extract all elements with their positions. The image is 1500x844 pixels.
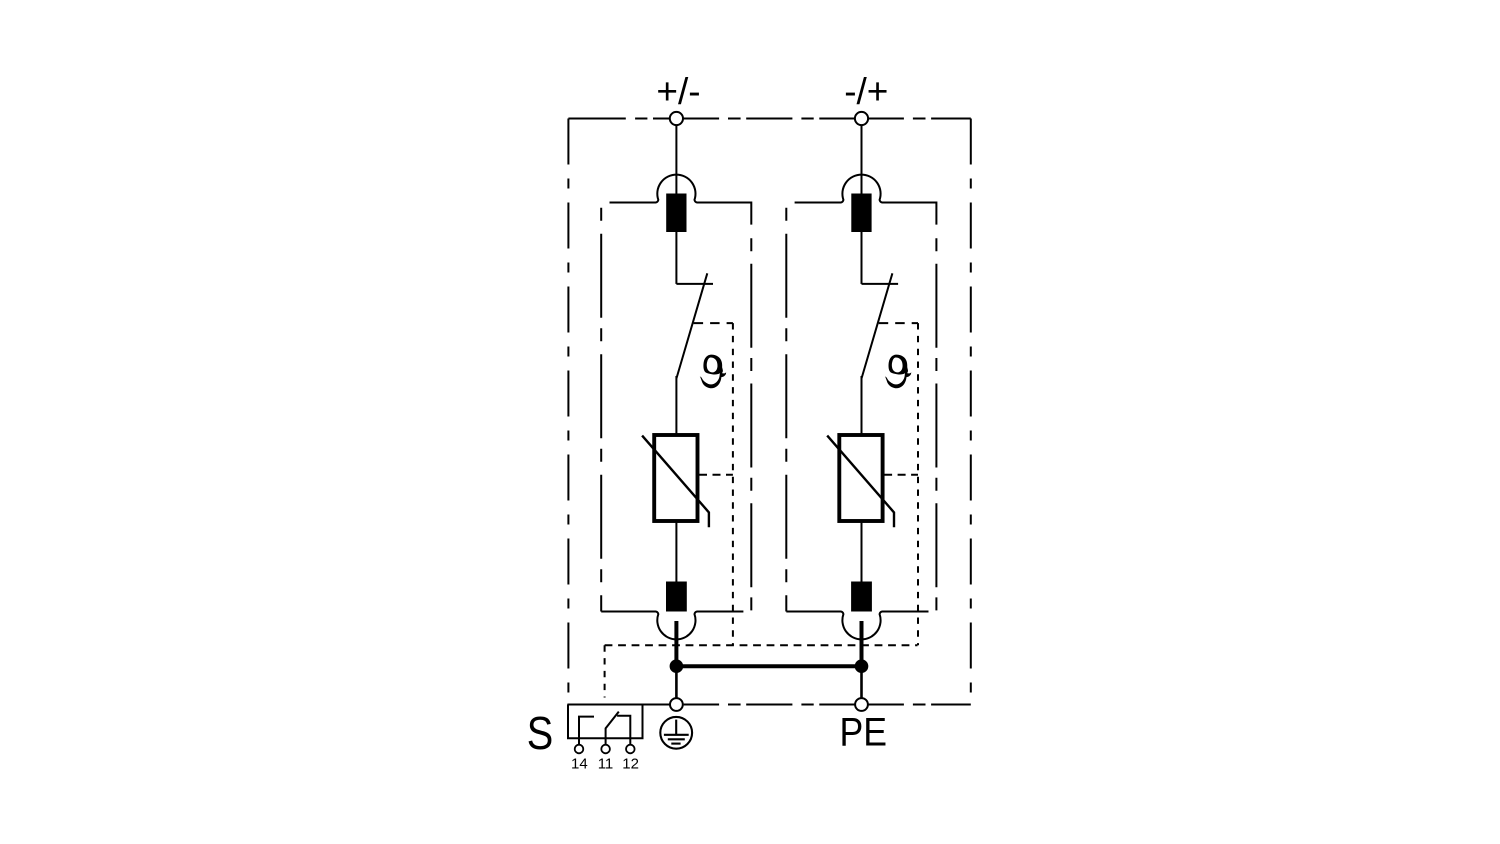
wire: plug contact to thermal disconnector (left leg) — [675, 232, 677, 284]
remote signalling contact S: box — [568, 705, 643, 739]
varistor (left leg): body — [654, 435, 697, 521]
dotted link varistor to thermal box (right leg) — [884, 474, 918, 476]
wire: plug contact to PE junction, thick (left leg) — [674, 621, 678, 666]
thermal disconnector switch (right leg): blade — [862, 273, 893, 378]
terminal circle bottom (right leg) — [855, 698, 868, 711]
wire: top left arm (right leg) — [795, 202, 842, 204]
wire: bottom left arm (right leg) — [786, 611, 841, 613]
remote signalling contact S: fixed contact 12 — [617, 716, 630, 739]
enclosure border bottom solid left portion / S box top — [567, 704, 670, 706]
junction node (right leg) — [855, 659, 869, 673]
dashed module boundary left side (right leg) — [785, 208, 787, 612]
junction node (left leg) — [670, 659, 684, 673]
dashed module boundary right side (left leg) — [750, 238, 752, 610]
dotted thermal linkage box (left leg): top — [694, 322, 733, 324]
plug-in contact top (right leg): black block — [851, 194, 871, 233]
enclosure border right (dash-dot) — [970, 119, 972, 705]
wire: terminal to top plug contact (right leg) — [861, 125, 863, 194]
dotted linkage: drop to remote signalling contact — [604, 645, 606, 697]
pin stub 12 — [629, 738, 631, 745]
terminal circle +/- — [670, 112, 683, 125]
svg-text:-/+: -/+ — [844, 71, 888, 112]
label thermal symbol ϑ (right leg) — [885, 355, 912, 389]
wire: switch to varistor (right leg) — [861, 376, 863, 435]
wire: junction to bottom terminal (right leg) — [860, 666, 863, 697]
plug-in contact bottom (left leg): black block — [666, 582, 687, 622]
wire: top left arm (left leg) — [610, 202, 657, 204]
dotted linkage: bottom horizontal to remote contact — [605, 644, 918, 646]
plug-in contact top (left leg): black block — [666, 194, 686, 233]
varistor (left leg): diagonal stroke — [642, 436, 709, 528]
svg-text:PE: PE — [840, 711, 888, 755]
wire: switch to varistor (left leg) — [675, 376, 677, 435]
thermal disconnector switch (right leg): fixed contact — [862, 283, 899, 285]
pin circle 14 — [575, 745, 584, 754]
dashed module boundary left side (left leg) — [600, 208, 602, 612]
dashed module boundary right side (right leg) — [935, 238, 937, 610]
pin circle 12 — [626, 745, 635, 754]
svg-text:11: 11 — [598, 755, 614, 772]
remote signalling contact S: fixed contact 14 — [579, 717, 594, 739]
wire: junction to bottom terminal (left leg) — [675, 666, 678, 697]
wire: top right arm with corner (left leg) — [697, 203, 752, 225]
dotted thermal linkage box (left leg): right side — [732, 323, 734, 645]
terminal circle -/+ — [855, 112, 868, 125]
varistor (right leg): body — [839, 435, 882, 521]
svg-text:12: 12 — [622, 755, 639, 772]
plug-in contact bottom (left leg): arc — [656, 612, 698, 640]
svg-text:S: S — [527, 707, 554, 759]
plug-in contact bottom (right leg): black block — [851, 582, 872, 622]
remote signalling contact S: movable contact 11 — [606, 712, 619, 739]
svg-text:14: 14 — [571, 755, 588, 772]
pin stub 11 — [605, 738, 607, 745]
enclosure border left (dash-dot) — [567, 119, 569, 705]
wire: varistor to bottom plug contact (left leg) — [675, 521, 677, 582]
dotted thermal linkage box (right leg): top — [879, 322, 918, 324]
ground symbol (protective earth, circled) — [660, 717, 692, 749]
wire: plug contact to thermal disconnector (right leg) — [861, 232, 863, 284]
plug-in contact top (right leg): arc — [841, 175, 883, 203]
terminal circle bottom (left leg) — [670, 698, 683, 711]
plug-in contact top (left leg): arc — [656, 175, 698, 203]
pin stub 14 — [578, 738, 580, 745]
dotted link varistor to thermal box (left leg) — [699, 474, 733, 476]
varistor (right leg): diagonal stroke — [827, 436, 894, 528]
wire: plug contact to PE junction, thick (right leg) — [860, 621, 864, 666]
enclosure border bottom (dash-dot right portion) — [684, 704, 971, 706]
label thermal symbol ϑ (left leg) — [699, 355, 726, 389]
pin circle 11 — [601, 745, 610, 754]
thermal disconnector switch (left leg): fixed contact — [676, 283, 713, 285]
wire: terminal to top plug contact (left leg) — [675, 125, 677, 194]
PE bus wire (thick) — [676, 664, 861, 668]
wire: top right arm with corner (right leg) — [882, 203, 937, 225]
plug-in contact bottom (right leg): arc — [841, 612, 883, 640]
enclosure border top (dash-dot) — [568, 118, 970, 120]
wire: bottom right arm (right leg) — [882, 611, 929, 613]
dotted thermal linkage box (right leg): right side — [917, 323, 919, 645]
svg-text:+/-: +/- — [656, 71, 700, 112]
wire: bottom left arm (left leg) — [601, 611, 656, 613]
wire: bottom right arm (left leg) — [697, 611, 744, 613]
wire: varistor to bottom plug contact (right leg) — [861, 521, 863, 582]
thermal disconnector switch (left leg): blade — [676, 273, 707, 378]
